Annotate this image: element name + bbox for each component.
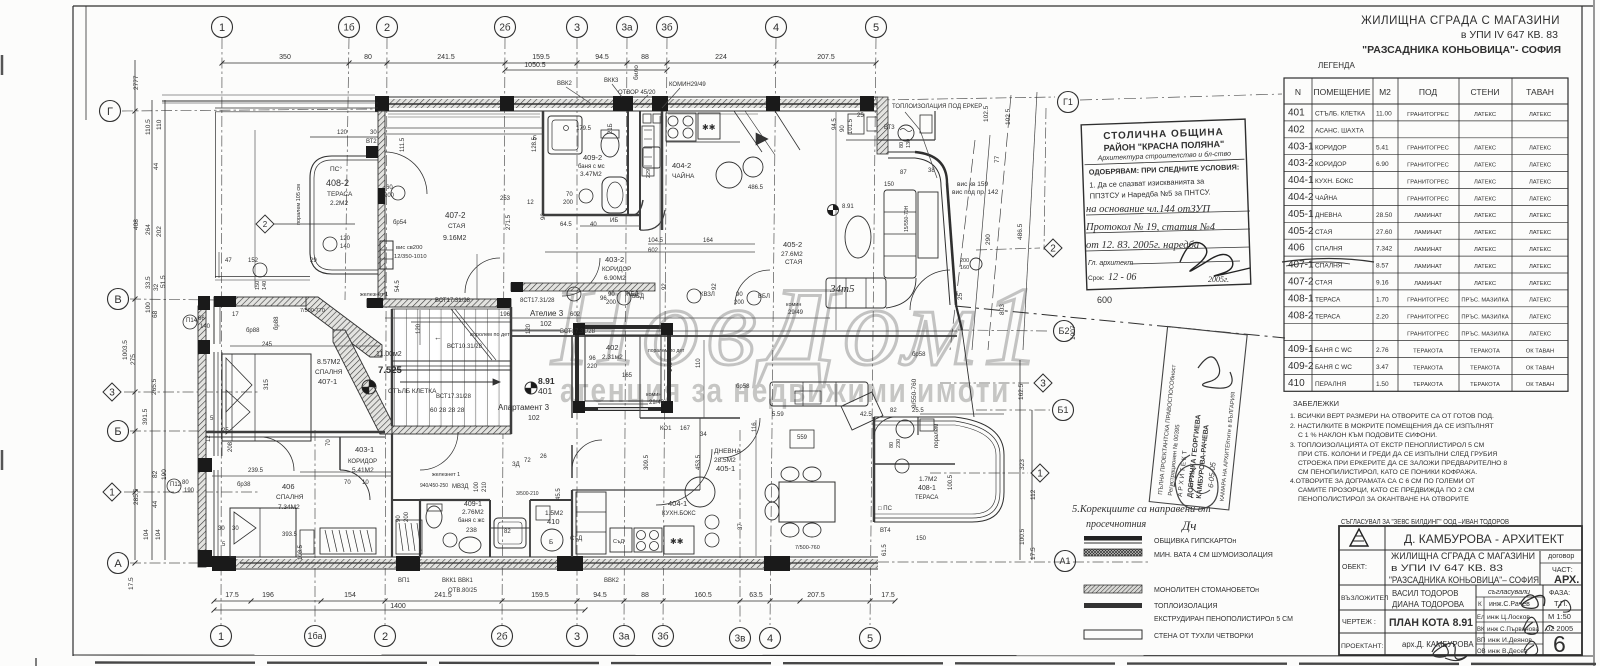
room 408-1 label	[878, 476, 938, 512]
svg-text:ВСТ10.31/28: ВСТ10.31/28	[447, 344, 483, 350]
svg-text:ТЕРАКОТА: ТЕРАКОТА	[1470, 348, 1500, 354]
svg-text:406: 406	[1288, 243, 1305, 254]
svg-text:3.47М2: 3.47М2	[580, 171, 602, 178]
svg-text:94.5: 94.5	[595, 54, 609, 61]
svg-text:ЛАТЕКС: ЛАТЕКС	[1529, 331, 1551, 337]
svg-text:ЛАТЕКС: ЛАТЕКС	[1474, 196, 1496, 202]
svg-text:241.5: 241.5	[437, 54, 455, 61]
svg-text:3.47: 3.47	[1376, 364, 1389, 371]
svg-text:6.90: 6.90	[1376, 161, 1389, 168]
svg-text:ВКК1 ВВК1: ВКК1 ВВК1	[442, 578, 473, 584]
svg-text:ДИАНА ТОДОРОВА: ДИАНА ТОДОРОВА	[1392, 600, 1465, 609]
slab edge above terrace	[162, 103, 378, 280]
svg-text:ЧАСТ:: ЧАСТ:	[1552, 565, 1573, 574]
svg-text:ОК ТАВАН: ОК ТАВАН	[1526, 382, 1554, 388]
handwritten note 5	[1072, 504, 1211, 533]
svg-text:ОВ: ОВ	[1477, 649, 1486, 655]
corridor 403-2 south wall	[511, 282, 655, 292]
bathroom 409-2 walls	[543, 111, 643, 215]
svg-text:405-1: 405-1	[716, 464, 735, 473]
room 403-2 label	[602, 255, 631, 282]
svg-text:ГРАНИТОГРЕС: ГРАНИТОГРЕС	[1407, 298, 1449, 304]
room 404-1 label	[662, 499, 696, 517]
svg-text:просечнотния: просечнотния	[1086, 519, 1147, 530]
hatch legend gypsum	[1084, 536, 1236, 545]
svg-text:47: 47	[225, 258, 232, 264]
svg-text:25.5: 25.5	[912, 408, 924, 414]
room 405-2 label	[781, 240, 803, 266]
svg-text:7/500-770: 7/500-770	[300, 308, 325, 314]
grid bubble 2	[375, 626, 396, 647]
svg-text:Гл. архитект: Гл. архитект	[1088, 260, 1133, 267]
svg-text:88: 88	[641, 592, 649, 599]
wall between terrace and room 407-2	[378, 111, 385, 301]
svg-text:1. ВСИЧКИ ВЕРТ РАЗМЕРИ НА ОТВО: 1. ВСИЧКИ ВЕРТ РАЗМЕРИ НА ОТВОРИТЕ СА ОТ…	[1290, 413, 1494, 420]
svg-text:ГРАНИТОГРЕС: ГРАНИТОГРЕС	[1407, 146, 1449, 152]
svg-text:8.91: 8.91	[842, 204, 854, 210]
svg-text:245: 245	[262, 342, 273, 348]
svg-text:140: 140	[262, 281, 268, 290]
svg-text:Г1: Г1	[1063, 97, 1073, 107]
bath near terrace fixtures	[880, 419, 934, 534]
svg-text:АРХ.: АРХ.	[1554, 574, 1579, 586]
grid bubble &#1040;1	[1055, 551, 1076, 572]
svg-text:инж И.Деянов: инж И.Деянов	[1488, 637, 1532, 644]
svg-text:167: 167	[680, 426, 691, 432]
svg-text:5.41М2: 5.41М2	[352, 467, 374, 474]
svg-text:130: 130	[906, 139, 912, 148]
wall between hall and dnevna	[511, 307, 957, 418]
svg-text:27.60: 27.60	[1376, 229, 1393, 236]
svg-text:407-1: 407-1	[318, 377, 337, 386]
svg-text:407-2: 407-2	[445, 211, 466, 220]
svg-text:87: 87	[900, 170, 907, 176]
svg-text:ПРЪС. МАЗИЛКА: ПРЪС. МАЗИЛКА	[1461, 315, 1509, 321]
svg-text:7/500-760: 7/500-760	[795, 545, 820, 551]
svg-text:2.20: 2.20	[1376, 313, 1389, 320]
svg-text:ЖИЛИЩНА СГРАДА С МАГАЗИНИ: ЖИЛИЩНА СГРАДА С МАГАЗИНИ	[1391, 551, 1535, 561]
svg-text:1.7М2: 1.7М2	[919, 476, 937, 483]
svg-text:271.5: 271.5	[506, 214, 512, 230]
svg-text:408-1: 408-1	[1288, 293, 1314, 304]
svg-text:275: 275	[130, 354, 137, 365]
corridor 403-1 walls	[340, 437, 420, 500]
room 403-1 label	[348, 445, 377, 474]
svg-text:ЛАМИНАТ: ЛАМИНАТ	[1414, 230, 1442, 236]
stamp stolichna obshtina	[1081, 119, 1251, 290]
svg-text:150: 150	[884, 182, 895, 188]
stair direction arrow	[400, 381, 500, 383]
svg-text:ВКК3: ВКК3	[604, 78, 619, 84]
grid bubble &#1041;1	[1053, 400, 1074, 421]
window sill lines top wall	[388, 114, 758, 117]
svg-text:90: 90	[608, 292, 615, 298]
svg-text:63.5: 63.5	[749, 592, 763, 599]
bay window diagonals	[734, 111, 800, 155]
svg-text:КУХН.БОКС: КУХН.БОКС	[662, 511, 696, 517]
svg-text:Ел: Ел	[1477, 615, 1485, 621]
svg-text:ВБЛ: ВБЛ	[758, 294, 770, 300]
svg-text:ЛАТЕКС: ЛАТЕКС	[1529, 146, 1551, 152]
grid diamond 1	[103, 483, 121, 501]
svg-text:Ателие 3: Ателие 3	[530, 309, 564, 318]
svg-text:инж Ц.Лосков: инж Ц.Лосков	[1487, 614, 1530, 621]
svg-text:ЕКСТРУДИРАН ПЕНОПОЛИСТИРОл 5 С: ЕКСТРУДИРАН ПЕНОПОЛИСТИРОл 5 СМ	[1154, 616, 1293, 623]
svg-text:409-1: 409-1	[1288, 344, 1314, 355]
svg-text:3б: 3б	[657, 631, 669, 643]
svg-text:196: 196	[262, 592, 274, 599]
bed room 406	[230, 508, 298, 557]
svg-text:25: 25	[222, 428, 229, 434]
svg-text:11.00: 11.00	[1376, 110, 1392, 117]
svg-text:140: 140	[200, 324, 211, 330]
svg-text:←: ←	[434, 333, 442, 342]
svg-text:ЛАТЕКС: ЛАТЕКС	[1529, 230, 1551, 236]
svg-text:102: 102	[540, 321, 552, 328]
svg-text:165: 165	[622, 373, 633, 379]
svg-text:1: 1	[218, 631, 224, 643]
svg-text:34т5: 34т5	[829, 283, 855, 295]
bottom wall piers	[212, 556, 790, 571]
svg-text:железнет 1: железнет 1	[360, 292, 388, 298]
svg-text:бр38: бр38	[237, 482, 251, 488]
svg-text:ПРЪС. МАЗИЛКА: ПРЪС. МАЗИЛКА	[1461, 331, 1509, 337]
svg-text:12 - 06: 12 - 06	[1108, 272, 1136, 283]
room 407-1 label	[315, 359, 343, 386]
terrace 408-1 wall and railing	[874, 417, 1004, 522]
svg-text:5: 5	[867, 633, 873, 645]
svg-text:72: 72	[524, 458, 531, 464]
svg-text:ТЕРАСА: ТЕРАСА	[1315, 313, 1341, 320]
svg-text:12: 12	[527, 200, 534, 206]
svg-text:1.50: 1.50	[1376, 381, 1389, 388]
svg-text:190: 190	[161, 469, 168, 480]
svg-text:265.5: 265.5	[151, 378, 158, 395]
bottom exterior wall	[212, 557, 878, 569]
grid diamond 3	[1034, 374, 1052, 392]
svg-text:60 28 28 28: 60 28 28 28	[430, 407, 465, 414]
bathroom 409-1 walls	[420, 500, 530, 557]
svg-text:940/450-250: 940/450-250	[420, 483, 448, 489]
top dimension chain	[220, 54, 879, 80]
bath near terrace walls	[874, 417, 955, 464]
svg-text:28.50: 28.50	[1376, 212, 1393, 219]
svg-text:СПАЛНЯ: СПАЛНЯ	[1315, 246, 1343, 253]
svg-text:179.5: 179.5	[576, 126, 592, 132]
svg-text:поралем по дет: поралем по дет	[648, 348, 685, 354]
grid bubble 3&#1073;	[653, 626, 674, 647]
hatch legend reinforced concrete	[1084, 585, 1259, 594]
svg-text:405-2: 405-2	[1288, 226, 1314, 237]
svg-text:30: 30	[218, 526, 225, 532]
small bath top right walls	[878, 111, 935, 140]
svg-text:вис св200: вис св200	[396, 245, 422, 251]
svg-text:СТЪЛБ КЛЕТКА: СТЪЛБ КЛЕТКА	[388, 388, 437, 395]
svg-text:3: 3	[109, 388, 115, 399]
svg-text:ЛАТЕКС: ЛАТЕКС	[1529, 247, 1551, 253]
svg-text:"РАЗСАДНИКА КОНЬОВИЦА"– СОФ: "РАЗСАДНИКА КОНЬОВИЦА"– СОФИЯ	[1389, 575, 1539, 585]
svg-text:КОРИДОР: КОРИДОР	[602, 267, 631, 273]
svg-text:408-2: 408-2	[1288, 310, 1314, 321]
svg-text:104.5: 104.5	[648, 238, 664, 244]
svg-text:2б: 2б	[496, 631, 508, 643]
svg-text:7.525: 7.525	[378, 365, 402, 376]
svg-text:ЛАМИНАТ: ЛАМИНАТ	[1414, 281, 1442, 287]
svg-text:ВП: ВП	[1477, 638, 1485, 644]
room 406 right wall	[391, 434, 393, 557]
svg-text:1007: 1007	[1070, 325, 1077, 340]
svg-text:90: 90	[840, 125, 846, 132]
svg-text:150: 150	[255, 281, 261, 290]
room 406 label	[276, 482, 304, 511]
grid bubble 1&#1073;	[339, 17, 360, 38]
svg-text:8.91: 8.91	[538, 376, 555, 386]
right dimension chains	[911, 105, 1077, 560]
svg-text:3в: 3в	[735, 634, 746, 645]
corridor radiator hatch	[396, 520, 422, 554]
svg-text:230: 230	[896, 439, 902, 448]
svg-text:СТАЯ: СТАЯ	[448, 223, 466, 230]
svg-text:110.5: 110.5	[145, 119, 152, 135]
svg-text:92: 92	[662, 283, 668, 290]
top right small bath fixtures	[884, 115, 932, 148]
svg-text:30: 30	[232, 526, 239, 532]
legend table	[1284, 78, 1568, 391]
svg-text:бр58: бр58	[736, 384, 750, 390]
svg-text:408-2: 408-2	[326, 178, 349, 188]
svg-text:102.5: 102.5	[983, 105, 990, 122]
G1 line extension right	[1080, 94, 1282, 100]
svg-text:409-2: 409-2	[583, 153, 602, 162]
svg-text:ЛАМИНАТ: ЛАМИНАТ	[1414, 213, 1442, 219]
grid bubble &#1042;	[108, 289, 129, 310]
svg-text:ПРИ СТБ. КОЛОНИ И ГРЕДИ ДА СЕ: ПРИ СТБ. КОЛОНИ И ГРЕДИ ДА СЕ ИЗПЪЛНИ СЛ…	[1298, 451, 1497, 458]
leader circles	[167, 186, 909, 547]
grid bubble &#1041;	[108, 421, 129, 442]
svg-text:154: 154	[344, 592, 356, 599]
svg-text:комин: комин	[646, 392, 661, 398]
svg-text:100.5: 100.5	[1019, 528, 1026, 545]
grid bubble 5	[860, 628, 881, 649]
svg-text:ТОПЛОИЗОЛАЦИЯ: ТОПЛОИЗОЛАЦИЯ	[1154, 603, 1218, 610]
svg-text:"РАЗСАДНИКА КОНЬОВИЦА"- СОФИЯ: "РАЗСАДНИКА КОНЬОВИЦА"- СОФИЯ	[1362, 44, 1561, 56]
boundary slanted projection lines	[950, 92, 1037, 350]
elevator 402 shaft	[573, 323, 673, 413]
svg-text:инж С.Първанова: инж С.Първанова	[1487, 626, 1539, 633]
svg-text:404-1: 404-1	[1288, 175, 1314, 186]
svg-text:3а: 3а	[618, 632, 630, 643]
svg-text:128.5: 128.5	[532, 136, 538, 152]
svg-text:152: 152	[248, 258, 259, 264]
svg-text:90: 90	[396, 515, 402, 522]
top-right eркер corner	[877, 97, 947, 186]
svg-text:323: 323	[1019, 459, 1026, 470]
svg-text:21Б: 21Б	[608, 123, 614, 134]
svg-text:110: 110	[696, 358, 702, 368]
bathroom 409-1 fixtures	[426, 504, 526, 553]
svg-text:✱✱: ✱✱	[670, 537, 684, 546]
project title top right	[1361, 15, 1561, 56]
svg-text:ГРАНИТОГРЕС: ГРАНИТОГРЕС	[1407, 162, 1449, 168]
svg-text:ОБЩИВКА ГИПСКАРТОн: ОБЩИВКА ГИПСКАРТОн	[1154, 538, 1236, 545]
svg-text:ЛАТЕКС: ЛАТЕКС	[1474, 179, 1496, 185]
svg-text:17.5: 17.5	[225, 592, 239, 599]
svg-text:104: 104	[155, 529, 162, 540]
svg-text:410: 410	[547, 517, 560, 526]
svg-text:СЪГЛАСУВАЛ ЗА "ЗЕВС БИЛДИНГ" О: СЪГЛАСУВАЛ ЗА "ЗЕВС БИЛДИНГ" ООД –ИВАН Т…	[1341, 517, 1509, 526]
svg-text:409-2: 409-2	[1288, 361, 1314, 372]
svg-text:2: 2	[1050, 244, 1056, 255]
svg-text:СъД: СъД	[613, 539, 624, 545]
radiator under 406 window	[300, 530, 314, 554]
svg-text:164: 164	[703, 238, 714, 244]
grid bubble 1	[211, 626, 232, 647]
svg-text:ФАЗА:: ФАЗА:	[1549, 588, 1570, 597]
svg-text:190: 190	[184, 488, 195, 494]
svg-text:ГРАНИТОГРЕС: ГРАНИТОГРЕС	[1407, 315, 1449, 321]
svg-text:200: 200	[734, 300, 745, 306]
svg-text:ТЕРАКОТА: ТЕРАКОТА	[1413, 382, 1443, 388]
svg-text:ВТ2: ВТ2	[366, 139, 377, 145]
svg-text:70: 70	[566, 192, 573, 198]
svg-text:АСАНС. ШАХТА: АСАНС. ШАХТА	[1315, 127, 1364, 134]
svg-text:17.5: 17.5	[1030, 547, 1037, 560]
plan small annotations	[170, 78, 982, 594]
svg-text:401: 401	[1288, 107, 1305, 118]
svg-text:баня с жс: баня с жс	[458, 518, 485, 524]
svg-text:ЛАТЕКС: ЛАТЕКС	[1474, 213, 1496, 219]
svg-text:ЛАТЕКС: ЛАТЕКС	[1529, 112, 1551, 118]
svg-text:5.41: 5.41	[1376, 144, 1389, 151]
grid bubble 1&#1073;&#1072;	[305, 626, 326, 647]
svg-text:202: 202	[156, 226, 163, 237]
title block signatures	[1432, 595, 1571, 661]
svg-text:51.5: 51.5	[160, 275, 167, 288]
grid bubble 3&#1074;	[730, 628, 751, 649]
svg-text:200: 200	[404, 511, 410, 522]
svg-text:КВЗЛ: КВЗЛ	[700, 292, 715, 298]
svg-text:120: 120	[337, 130, 348, 136]
svg-text:N: N	[1295, 87, 1301, 97]
dnevna-hall opening wall	[640, 336, 740, 418]
svg-text:МОНОЛИТЕН СТОМАНОБЕТОн: МОНОЛИТЕН СТОМАНОБЕТОн	[1154, 587, 1259, 594]
stairwell diagonal wall	[333, 330, 392, 434]
svg-text:486.5: 486.5	[748, 185, 764, 191]
room 409-1 label	[458, 501, 485, 534]
svg-text:М2: М2	[1379, 87, 1391, 97]
svg-text:ГРАНИТОГРЕС: ГРАНИТОГРЕС	[1407, 112, 1449, 118]
svg-text:2: 2	[263, 220, 268, 229]
svg-text:поралем 105 см: поралем 105 см	[296, 184, 302, 225]
svg-text:6: 6	[1553, 631, 1566, 657]
sofa L living 405-2	[826, 190, 938, 308]
svg-text:208: 208	[228, 441, 234, 452]
svg-text:207.5: 207.5	[807, 592, 825, 599]
svg-text:бр58: бр58	[912, 352, 926, 358]
vis column block room 407-2	[380, 241, 427, 269]
svg-text:403-1: 403-1	[355, 445, 374, 454]
svg-text:404-2: 404-2	[1288, 192, 1314, 203]
grid bubble 2&#1073;	[495, 17, 516, 38]
svg-text:съгласували: съгласували	[1488, 587, 1530, 596]
svg-text:ВТ4: ВТ4	[880, 528, 891, 534]
svg-text:120: 120	[416, 323, 422, 334]
svg-text:239.5: 239.5	[248, 468, 264, 474]
svg-text:ТЕРАСА: ТЕРАСА	[327, 191, 353, 198]
svg-text:ЛАТЕКС: ЛАТЕКС	[1474, 264, 1496, 270]
left terrace 408-2 railing	[310, 156, 378, 274]
svg-text:в УПИ IV 647 КВ. 83: в УПИ IV 647 КВ. 83	[1391, 563, 1503, 573]
atelie 3 label	[530, 309, 564, 328]
svg-text:407-2: 407-2	[1288, 276, 1314, 287]
wall under stairwell	[392, 426, 511, 434]
svg-text:3: 3	[574, 631, 580, 643]
svg-text:140: 140	[340, 244, 351, 250]
bottom dimension chain	[212, 592, 898, 613]
grid bubble &#1043;1	[1058, 92, 1079, 113]
svg-text:559: 559	[797, 435, 808, 441]
svg-text:17.5: 17.5	[128, 577, 135, 590]
watermark big script НовДом1	[550, 265, 1047, 389]
svg-text:БАНЯ С WC: БАНЯ С WC	[1315, 364, 1352, 371]
svg-text:ТЕРАКОТА: ТЕРАКОТА	[1413, 365, 1443, 371]
svg-text:бр88: бр88	[274, 316, 280, 330]
svg-text:ЛАТЕКС: ЛАТЕКС	[1529, 179, 1551, 185]
svg-text:ПЕНОПОЛИСТИРОЛ ЗА ОКАНТВАНЕ НА: ПЕНОПОЛИСТИРОЛ ЗА ОКАНТВАНЕ НА ОТВОРИТЕ	[1298, 496, 1469, 503]
svg-text:37: 37	[738, 523, 744, 530]
svg-text:ОБЕКТ:: ОБЕКТ:	[1342, 564, 1367, 571]
svg-text:комин: комин	[786, 302, 801, 308]
svg-text:4: 4	[767, 633, 773, 645]
grid bubble 4	[760, 628, 781, 649]
right wall lower segment	[962, 330, 974, 417]
svg-text:82: 82	[152, 470, 159, 478]
svg-text:А: А	[114, 558, 122, 570]
terrace 408-2 south wall	[214, 296, 310, 307]
svg-text:СПАЛНЯ: СПАЛНЯ	[276, 494, 304, 501]
svg-text:42.5: 42.5	[860, 412, 872, 418]
svg-text:КУХН. БОКС: КУХН. БОКС	[1315, 178, 1354, 185]
svg-text:Г: Г	[107, 106, 113, 118]
svg-text:404-2: 404-2	[672, 161, 691, 170]
svg-text:ВСТ17.31/28: ВСТ17.31/28	[436, 394, 472, 400]
svg-text:159.5: 159.5	[532, 54, 550, 61]
svg-text:66: 66	[198, 316, 205, 322]
svg-text:2.76М2: 2.76М2	[462, 509, 484, 516]
room 402 label	[602, 343, 623, 361]
svg-text:68: 68	[152, 310, 159, 318]
notes zabelezhki	[1290, 399, 1507, 503]
svg-text:ЛАМИНАТ: ЛАМИНАТ	[1414, 264, 1442, 270]
room 408-2 terrace labels	[225, 165, 401, 292]
svg-text:44: 44	[153, 162, 160, 170]
svg-text:ГРАНИТОГРЕС: ГРАНИТОГРЕС	[1407, 196, 1449, 202]
svg-text:в УПИ IV 647 КВ. 83: в УПИ IV 647 КВ. 83	[1461, 29, 1558, 41]
svg-text:САМИТЕ ПРОЗОРЦИ, КАТО СЕ ПРЕДВ: САМИТЕ ПРОЗОРЦИ, КАТО СЕ ПРЕДВИЖДА ПО 2 …	[1298, 487, 1475, 494]
svg-text:КОРИДОР: КОРИДОР	[348, 459, 377, 465]
svg-text:100.5: 100.5	[948, 474, 954, 490]
svg-text:1: 1	[109, 488, 115, 499]
kitchen round table	[685, 477, 719, 547]
wall between bedrooms 407-1 and 406	[206, 432, 385, 437]
svg-text:3: 3	[1040, 379, 1046, 390]
architect stamp signature	[1198, 357, 1232, 388]
svg-text:80: 80	[182, 480, 189, 486]
level marker 8.91 room 405-2	[828, 205, 839, 216]
svg-text:БАНЯ С WC: БАНЯ С WC	[1315, 347, 1352, 354]
svg-text:803: 803	[999, 304, 1006, 315]
svg-text:В: В	[114, 294, 121, 306]
